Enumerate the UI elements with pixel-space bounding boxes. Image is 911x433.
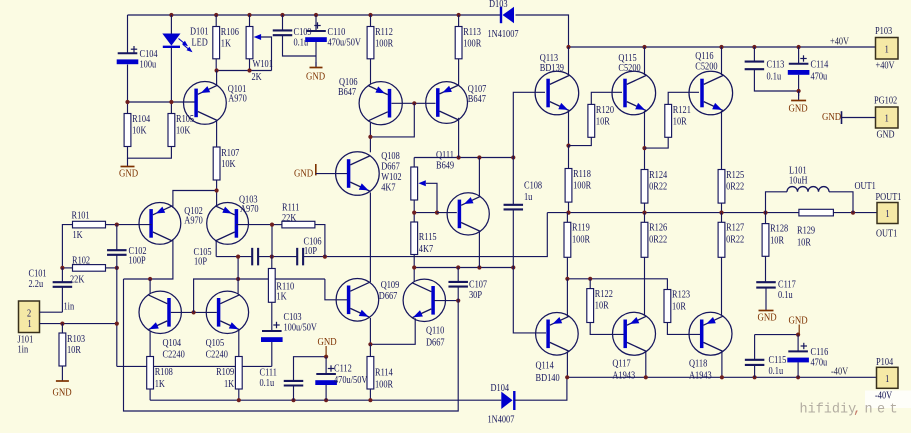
wire M1 left (216, 256, 252, 258)
junction Q104 collector (148, 277, 152, 281)
wire R106 top (215, 15, 217, 27)
capacitor C114 (788, 55, 829, 82)
transistor Q106 (338, 77, 402, 124)
wire Q108e to Q109 collector (369, 192, 371, 282)
junction bias bottom (412, 265, 515, 269)
junction Q106 collector (368, 135, 372, 139)
wire C109 top lead (282, 15, 284, 30)
junction C112 gnd (324, 355, 328, 359)
svg-text:A970: A970 (228, 94, 247, 105)
svg-text:GND: GND (822, 111, 841, 123)
capacitor C113 (745, 62, 765, 70)
transistor Q110 (403, 279, 445, 348)
wire R111 left (272, 224, 282, 226)
wire Q111 collector (478, 232, 480, 268)
junction bias top (457, 155, 516, 159)
svg-text:1: 1 (28, 319, 32, 330)
svg-text:R125: R125 (726, 170, 744, 181)
transistor Q104 (139, 291, 185, 361)
resistor R121 (665, 104, 691, 137)
wire C110 top lead (315, 15, 317, 31)
wire C115 bottom (754, 365, 756, 377)
wire R120 top to Q115 base (591, 92, 622, 104)
resistor R123 (664, 290, 690, 323)
wire R113 top (458, 15, 460, 27)
wire Q111 base (437, 212, 457, 214)
wire Q103 collector (215, 241, 217, 257)
wire Q115 collector (644, 47, 646, 75)
svg-text:-40V: -40V (875, 391, 892, 402)
svg-text:R128: R128 (770, 224, 788, 235)
svg-text:C110: C110 (328, 27, 346, 38)
svg-text:Q105: Q105 (206, 338, 225, 349)
wire C103 bottom (271, 342, 273, 366)
wire Q113e to R120 (569, 137, 592, 145)
wire R114 bottom (369, 389, 371, 400)
svg-text:GND: GND (789, 315, 808, 327)
wire C113 bottom (754, 69, 798, 91)
capacitor C117 (756, 282, 776, 287)
junction M1 (236, 255, 327, 259)
resistor R105 (168, 114, 194, 147)
wire C104 top lead (127, 15, 129, 53)
svg-text:A1943: A1943 (689, 371, 712, 382)
wire output rail (547, 212, 799, 214)
svg-text:0.1u: 0.1u (767, 72, 782, 83)
wire R126 top (644, 213, 646, 223)
svg-text:1K: 1K (73, 230, 83, 241)
wire R112 to Q106 (370, 59, 372, 84)
wire Q108 base (316, 173, 350, 175)
junction emitters (215, 188, 219, 192)
junction base rail (125, 100, 173, 104)
wire diff emitters (173, 191, 217, 208)
wire C111 bottom (293, 386, 295, 401)
junction C114 gnd (797, 89, 801, 93)
wire R106-W101 node (216, 70, 271, 72)
svg-text:0R22: 0R22 (649, 235, 667, 246)
svg-text:e: e (877, 403, 885, 418)
wire C101 bottom (61, 287, 63, 312)
svg-text:R121: R121 (673, 105, 691, 116)
wire -40V rail (567, 376, 876, 378)
wire Q105 emitter (238, 330, 240, 356)
wire R121 top to Q116 base (668, 92, 699, 104)
svg-text:470u/50V: 470u/50V (328, 38, 362, 49)
wire mirror bases (171, 311, 217, 313)
wire C115 lead (754, 335, 756, 360)
svg-text:10R: 10R (672, 302, 687, 313)
resistor R129 (797, 209, 833, 248)
resistor R114 (367, 357, 394, 391)
wire C112 top (325, 357, 327, 374)
wire Q105 collector jumper (237, 257, 239, 294)
svg-text:10R: 10R (770, 236, 785, 247)
svg-text:4K7: 4K7 (419, 244, 434, 255)
label +40V rail (830, 37, 849, 48)
wire +rail top left (128, 14, 502, 16)
wire Q115e to R121 (645, 137, 669, 148)
svg-text:C101: C101 (29, 269, 47, 280)
svg-text:100R: 100R (463, 39, 482, 50)
junction Q115 emitter (642, 146, 646, 150)
svg-text:t: t (890, 403, 898, 418)
svg-text:Q116: Q116 (695, 51, 714, 62)
junction dots top rail (169, 13, 460, 17)
svg-text:1K: 1K (224, 379, 234, 390)
svg-text:1N41007: 1N41007 (488, 29, 519, 40)
wire R128 bottom (765, 256, 767, 282)
svg-text:R102: R102 (72, 256, 90, 267)
resistor R126 (641, 222, 667, 257)
svg-text:Q110: Q110 (426, 326, 445, 337)
svg-text:n: n (865, 403, 873, 418)
wire C102 column (116, 225, 118, 251)
pin 2 label J101 (27, 309, 31, 320)
resistor R102 (70, 256, 106, 286)
svg-text:1K: 1K (155, 379, 165, 390)
svg-text:D667: D667 (426, 338, 445, 349)
ground GND C112 (318, 336, 337, 356)
wire Q110 base (434, 300, 458, 302)
wire base-collector tie (370, 103, 414, 137)
svg-text:W101: W101 (253, 59, 274, 70)
svg-text:100R: 100R (375, 39, 394, 50)
svg-text:Q104: Q104 (163, 338, 182, 349)
wire R123 to Q118 base (667, 323, 701, 335)
wire Q104 collector (149, 279, 151, 294)
svg-text:A970: A970 (240, 204, 259, 215)
svg-text:Q117: Q117 (612, 359, 631, 370)
svg-text:1K: 1K (276, 292, 286, 303)
svg-text:1u: 1u (524, 192, 533, 203)
transistor Q101 (184, 82, 248, 125)
junction bases (192, 310, 196, 314)
wire C114 top (798, 47, 800, 64)
svg-text:2.2u: 2.2u (29, 279, 44, 290)
wire Q106-Q107 bases (392, 102, 436, 104)
svg-text:R123: R123 (672, 290, 690, 301)
wire R108 bottom (149, 389, 151, 400)
wire R122 to Q117 base (590, 323, 624, 335)
transistor Q108 (336, 151, 402, 195)
junction C116 top (796, 333, 800, 337)
wire J101 pin2 (40, 311, 63, 313)
svg-text:0.1u: 0.1u (778, 290, 793, 301)
svg-text:GND: GND (877, 130, 895, 141)
wire R103 bottom (61, 366, 63, 381)
resistor R103 (59, 333, 85, 366)
wire W102 bottom to R115 (413, 200, 415, 222)
svg-text:+40V: +40V (830, 37, 849, 48)
svg-text:4K7: 4K7 (381, 183, 396, 194)
svg-text:C5200: C5200 (618, 63, 641, 74)
connector PG102 (874, 96, 898, 141)
svg-text:C116: C116 (811, 347, 829, 358)
svg-text:A970: A970 (184, 216, 203, 227)
svg-text:0R22: 0R22 (726, 235, 744, 246)
svg-text:PG102: PG102 (874, 96, 898, 107)
svg-text:GND: GND (306, 71, 325, 83)
svg-text:C115: C115 (769, 355, 787, 366)
svg-text:hifidiy: hifidiy (800, 403, 857, 418)
svg-text:100u: 100u (140, 60, 157, 71)
junction dots +40V rail (566, 45, 800, 49)
diode D104 (488, 383, 515, 425)
wire C114 bottom (798, 75, 800, 96)
capacitor C104 (117, 46, 158, 71)
svg-text:P104: P104 (876, 357, 893, 368)
svg-text:2K: 2K (252, 72, 262, 83)
capacitor C106 (297, 248, 303, 266)
svg-text:C112: C112 (334, 364, 352, 375)
wire Q103 base (236, 224, 272, 226)
wire W102 top (413, 158, 415, 168)
svg-text:R107: R107 (221, 148, 239, 159)
svg-text:Q118: Q118 (689, 359, 708, 370)
wire Q111 emitter (478, 158, 480, 197)
resistor R113 (455, 27, 482, 59)
wire +40V rail (569, 46, 876, 48)
svg-text:BD139: BD139 (540, 63, 564, 74)
svg-text:-40V: -40V (831, 367, 848, 378)
wire bias rail bottom (414, 267, 513, 269)
junction driver rail (565, 277, 592, 281)
svg-text:1in: 1in (64, 302, 75, 313)
wire output rail right (833, 212, 876, 214)
wire C101 top (61, 268, 63, 282)
wire R128 top (765, 213, 767, 224)
junction gnd rail (237, 398, 373, 402)
transistor Q107 (426, 82, 487, 124)
svg-text:GND: GND (789, 103, 808, 115)
wire R112 top (370, 15, 372, 27)
svg-text:1in: 1in (18, 345, 29, 356)
svg-text:B647: B647 (338, 87, 356, 98)
transistor Q102 (139, 203, 203, 245)
svg-text:0R22: 0R22 (649, 182, 667, 193)
ground GND C116 (789, 315, 808, 335)
wire C108 bottom and Q114 base drop (513, 209, 546, 333)
wire R127 top (721, 213, 723, 223)
wire Q113 base (513, 92, 545, 157)
svg-text:R124: R124 (649, 170, 667, 181)
svg-text:LED: LED (192, 38, 208, 49)
wire bases riser (194, 279, 325, 312)
svg-text:R108: R108 (155, 367, 173, 378)
wire PG102 lead (842, 117, 876, 119)
capacitor C102 (107, 250, 127, 255)
wire C112 bottom (325, 385, 327, 400)
wire R118 leads (568, 146, 570, 169)
svg-text:D101: D101 (190, 27, 209, 38)
wire R106 bottom (215, 59, 217, 71)
label C115 (769, 355, 787, 377)
wire R104-R105 bottoms (128, 147, 172, 159)
junction output rail (566, 211, 855, 215)
resistor R118 (565, 169, 592, 203)
svg-text:+40V: +40V (876, 61, 895, 72)
svg-text:POUT1: POUT1 (876, 192, 902, 203)
label C113 (767, 60, 785, 83)
wire R115 bottom (413, 255, 415, 268)
svg-text:R101: R101 (72, 211, 90, 222)
ground GND C114 (789, 91, 808, 115)
svg-text:OUT1: OUT1 (855, 181, 877, 192)
svg-text:470u: 470u (811, 72, 828, 83)
wire C109 bottom (283, 35, 317, 56)
svg-text:100P: 100P (129, 256, 146, 267)
capacitor C107 (448, 282, 468, 287)
svg-text:R119: R119 (572, 223, 590, 234)
wire R127 to Q118 emitter (721, 257, 723, 315)
svg-text:10R: 10R (595, 301, 610, 312)
wire Q102 base (117, 224, 152, 226)
svg-text:P103: P103 (875, 26, 892, 37)
ground GND C117 (758, 288, 777, 324)
ground GND Q108 (294, 168, 316, 180)
svg-text:R118: R118 (573, 169, 591, 180)
wire R102 right (106, 267, 117, 269)
wire Q118 collector (721, 352, 723, 378)
wire D101 to R105 (170, 48, 172, 114)
svg-text:10P: 10P (304, 246, 317, 257)
capacitor C110 (305, 22, 361, 48)
resistor R119 (564, 222, 591, 257)
label C106 (304, 237, 322, 257)
junction -40V rail (565, 375, 800, 379)
svg-text:GND: GND (53, 387, 72, 399)
wire C115 top (755, 334, 799, 336)
wire NFB line (117, 365, 272, 367)
wire Q102 collector (124, 239, 173, 279)
svg-text:R115: R115 (419, 232, 437, 243)
wire C107 bottom (457, 287, 459, 301)
svg-text:0.1u: 0.1u (769, 366, 784, 377)
connector J101 (18, 301, 40, 356)
svg-text:R113: R113 (463, 27, 481, 38)
capacitor C116 (787, 343, 828, 369)
ground GND C110 (306, 62, 325, 83)
trimmer W102 (411, 167, 437, 213)
wire D104 cathode (514, 377, 567, 400)
LED D101 (162, 27, 209, 52)
svg-text:1: 1 (885, 374, 889, 385)
label C117 (778, 280, 796, 301)
svg-text:GND: GND (119, 168, 138, 180)
pin 1 label J101 (28, 319, 32, 330)
svg-text:C103: C103 (284, 312, 302, 323)
junction Q103 base (270, 223, 274, 227)
svg-text:C109: C109 (294, 27, 312, 38)
junction Q105 collector (236, 277, 240, 281)
transistor Q117 (612, 312, 655, 381)
svg-text:10P: 10P (194, 257, 207, 268)
wire R113 to Q107 (458, 59, 460, 86)
svg-text:100R: 100R (375, 380, 394, 391)
svg-text:10R: 10R (673, 117, 688, 128)
svg-text:10K: 10K (221, 159, 236, 170)
wire C107 top (457, 268, 459, 282)
connector P103 (875, 26, 898, 71)
wire Q109 emitter (369, 318, 371, 344)
svg-text:10uH: 10uH (789, 176, 808, 187)
wire C116 leads (797, 335, 799, 352)
wire M1 mid (258, 256, 297, 258)
resistor R127 (718, 222, 744, 257)
capacitor C112 (315, 364, 367, 386)
svg-text:R112: R112 (375, 27, 393, 38)
svg-text:R120: R120 (596, 105, 614, 116)
junction wiper (412, 211, 439, 215)
wire mirror out to Q109 base (325, 279, 349, 300)
svg-text:22K: 22K (70, 275, 85, 286)
capacitor C115 (745, 360, 765, 365)
resistor R109 (216, 357, 242, 391)
wire Q104 emitter (149, 331, 151, 357)
svg-text:100R: 100R (572, 235, 591, 246)
svg-text:100u/50V: 100u/50V (284, 323, 318, 334)
wire R119 bottom (566, 257, 568, 279)
wire gnd rail (150, 399, 501, 401)
wire C104 to R104 (127, 65, 129, 114)
svg-text:30P: 30P (469, 290, 482, 301)
svg-text:R106: R106 (221, 27, 239, 38)
svg-text:C114: C114 (811, 60, 829, 71)
resistor R122 (587, 289, 613, 323)
connector POUT1 (876, 192, 902, 239)
svg-text:10K: 10K (132, 126, 147, 137)
ground GND R104 (119, 158, 138, 180)
resistor R106 (213, 27, 239, 59)
transistor Q118 (689, 312, 732, 381)
svg-text:OUT1: OUT1 (876, 229, 898, 240)
svg-text:100R: 100R (573, 181, 592, 192)
label C101 (29, 269, 47, 290)
svg-text:C107: C107 (469, 280, 487, 291)
svg-text:GND: GND (294, 168, 313, 180)
wire Q106 collector (369, 123, 371, 153)
junction Q110 base (456, 299, 460, 303)
wire C102 to R102 node (116, 255, 118, 367)
capacitor C103 (261, 312, 317, 342)
svg-text:C2240: C2240 (206, 350, 229, 361)
svg-text:C5200: C5200 (695, 62, 718, 73)
svg-text:Q108: Q108 (381, 151, 400, 162)
transistor Q103 (207, 195, 259, 245)
svg-text:D667: D667 (379, 291, 398, 302)
trimmer W101 (246, 27, 273, 84)
wire Q114 collector (566, 351, 568, 377)
svg-text:C108: C108 (524, 181, 542, 192)
wire R102 left (62, 267, 72, 269)
svg-text:W102: W102 (381, 172, 402, 183)
svg-text:0R22: 0R22 (726, 182, 744, 193)
wire R126 to Q117 emitter (644, 257, 646, 315)
wire R110 to C103 (271, 302, 273, 331)
svg-text:,: , (853, 402, 861, 418)
capacitor C101 (53, 282, 73, 287)
wire Q101 base rail (128, 101, 195, 103)
wire Q116 emitter (721, 111, 723, 170)
resistor R124 (641, 170, 667, 204)
wire R101 right (106, 224, 117, 226)
svg-text:10R: 10R (67, 345, 82, 356)
capacitor C109 (273, 30, 293, 35)
svg-text:A1943: A1943 (612, 371, 635, 382)
resistor R112 (367, 27, 394, 59)
wire Q117 collector (645, 352, 647, 378)
